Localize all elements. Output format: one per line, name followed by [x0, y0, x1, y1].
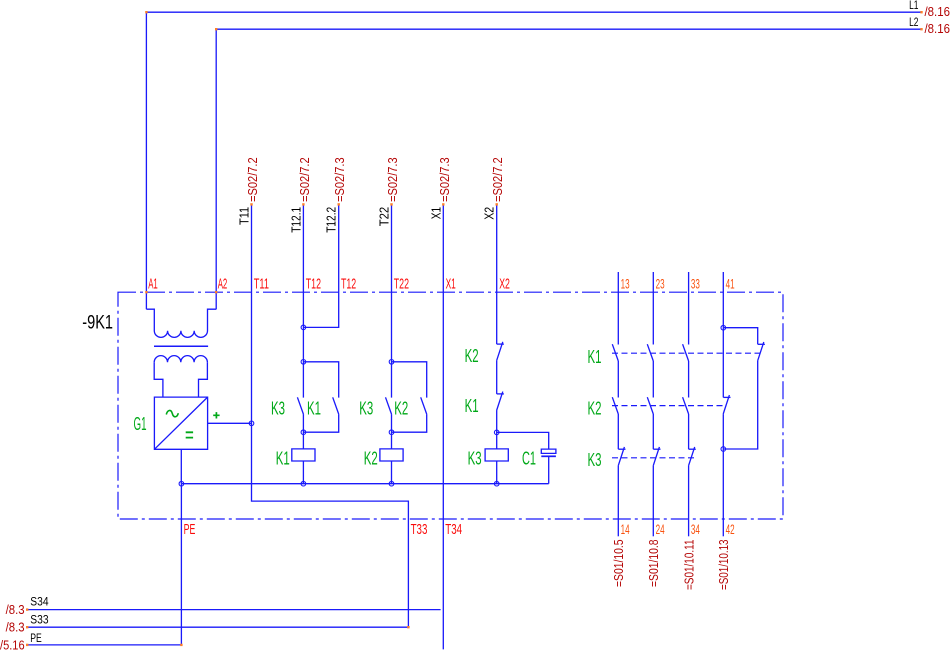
- wire col 13 seg3: [617, 414, 619, 449]
- wire T11: [27, 204, 408, 627]
- contact K3 row col 23 nc: [653, 448, 660, 450]
- wire coil K1 to rail: [302, 461, 304, 484]
- wire col 23 lower: [652, 466, 654, 537]
- svg-text:L2: L2: [909, 15, 919, 29]
- wire G1 plus output: [208, 422, 252, 424]
- node PE corner: [180, 644, 182, 646]
- wire L1: [146, 12, 921, 309]
- svg-text:/8.3: /8.3: [6, 602, 25, 617]
- svg-text:=S01/10.5: =S01/10.5: [611, 540, 626, 588]
- wire parallel branch K1: [303, 362, 338, 398]
- svg-text:T33: T33: [411, 521, 428, 538]
- coil K1: [292, 449, 315, 461]
- contact K1 nc: [497, 393, 504, 395]
- svg-text:33: 33: [691, 277, 700, 292]
- transformer core: [154, 345, 208, 347]
- junction K3 rail: [494, 481, 499, 486]
- contact K3 row col 13 nc: [618, 448, 625, 450]
- svg-text:K1: K1: [588, 346, 602, 367]
- wire contact column 33 upper: [688, 272, 690, 345]
- svg-text:T11: T11: [254, 276, 269, 293]
- junction G1 minus rail: [179, 481, 184, 486]
- junction T12 merge: [301, 325, 306, 330]
- node S33 corner: [407, 626, 409, 628]
- wire col 33 lower: [688, 466, 690, 537]
- svg-text:=S02/7.3: =S02/7.3: [385, 157, 400, 202]
- svg-text:/8.3: /8.3: [6, 620, 25, 635]
- contact K1 row col 23: [647, 344, 653, 361]
- node T12.1 top: [302, 203, 304, 205]
- wire C1 branch top: [497, 432, 549, 449]
- junction parallel bottom a: [301, 430, 306, 435]
- wire contact to coil K2: [391, 414, 393, 449]
- node S33 start: [26, 626, 28, 628]
- wire parallel bottom b: [392, 414, 427, 432]
- wire col 13 seg2: [617, 361, 619, 398]
- wire T12.1: [302, 204, 304, 397]
- linkage K2 row: [612, 405, 727, 407]
- svg-text:K1: K1: [307, 398, 321, 419]
- junction parallel top a: [301, 360, 306, 365]
- svg-text:=S02/7.3: =S02/7.3: [437, 157, 452, 202]
- node X1 top: [442, 203, 444, 205]
- svg-text:K2: K2: [394, 398, 408, 419]
- svg-text:S33: S33: [30, 612, 49, 626]
- svg-text:T22: T22: [377, 207, 392, 227]
- wire 41 main mid: [722, 328, 724, 398]
- contact K3 row col 33 nc: [689, 448, 696, 450]
- svg-text:=S01/10.11: =S01/10.11: [681, 540, 696, 591]
- node A1 border: [145, 291, 147, 293]
- svg-text:K3: K3: [359, 398, 373, 419]
- wire C1 branch bottom: [548, 456, 550, 483]
- wire X2: [496, 204, 498, 344]
- rectifier G1 DC symbol: [186, 432, 193, 437]
- svg-text:X1: X1: [428, 207, 443, 219]
- junction K1 rail: [301, 481, 306, 486]
- svg-text:24: 24: [656, 522, 665, 537]
- svg-text:K1: K1: [465, 395, 479, 416]
- node L2 corner: [215, 28, 217, 30]
- wire L2: [216, 29, 921, 309]
- svg-text:K3: K3: [588, 449, 602, 470]
- node T11 top: [250, 203, 252, 205]
- wire col 23 seg2: [652, 361, 654, 398]
- contact K2 row col 23: [647, 397, 653, 414]
- svg-text:X1: X1: [446, 276, 456, 293]
- capacitor C1 bottom plate: [541, 455, 556, 457]
- junction K3 C1 top: [494, 430, 499, 435]
- svg-text:L1: L1: [909, 0, 919, 12]
- contact K2 nc: [497, 343, 504, 345]
- contact K2 row col 13: [612, 397, 618, 414]
- svg-text:13: 13: [621, 277, 630, 292]
- wire col 23 seg3: [652, 414, 654, 449]
- svg-text:=S02/7.2: =S02/7.2: [245, 157, 260, 202]
- transformer secondary leads: [154, 362, 207, 397]
- wire parallel bottom a: [303, 414, 338, 432]
- transformer secondary winding: [154, 356, 207, 363]
- node L1 end: [920, 11, 922, 13]
- contact K3 second: [386, 397, 392, 414]
- rectifier G1 AC symbol: [166, 410, 178, 416]
- wire contact column 41 upper: [722, 272, 724, 328]
- wire coil K2 to rail: [391, 461, 393, 484]
- wire T22: [391, 204, 393, 397]
- svg-text:-9K1: -9K1: [82, 311, 113, 333]
- svg-text:T12.2: T12.2: [324, 207, 339, 233]
- contact K2 row col 33: [683, 397, 689, 414]
- wire contact column 23 upper: [652, 272, 654, 345]
- wire T12.2: [303, 204, 338, 327]
- svg-text:A2: A2: [218, 276, 228, 293]
- contact K1 row 41 nc: [758, 343, 765, 345]
- node T12.2 top: [338, 203, 340, 205]
- wire col 33 seg2: [688, 361, 690, 398]
- plus sign output: [213, 412, 219, 418]
- svg-text:G1: G1: [134, 414, 147, 434]
- node L2 end: [920, 28, 922, 30]
- node T22 top: [390, 203, 392, 205]
- contact K1 row col 33: [683, 344, 689, 361]
- contact K2 parallel: [421, 397, 427, 414]
- wire X1 T34: [442, 204, 444, 649]
- svg-text:K2: K2: [364, 448, 378, 469]
- contact K1 parallel: [333, 397, 339, 414]
- node S34 start: [26, 608, 28, 610]
- junction K2 rail: [389, 481, 394, 486]
- svg-text:X2: X2: [482, 207, 497, 220]
- svg-text:T34: T34: [445, 521, 462, 538]
- capacitor C1 top plate: [541, 449, 556, 453]
- wire 41 branch down: [723, 361, 757, 449]
- wire col 13 lower: [617, 466, 619, 537]
- node L1 corner: [145, 11, 147, 13]
- svg-text:34: 34: [691, 522, 700, 537]
- svg-text:PE: PE: [30, 631, 42, 645]
- svg-text:T12: T12: [341, 276, 356, 293]
- junction 41 top: [721, 325, 726, 330]
- rectifier G1 box: [154, 397, 207, 449]
- wire contact to coil K1: [302, 414, 304, 449]
- wire coil K3 to rail: [496, 461, 498, 484]
- wire 41 main lower: [722, 414, 724, 536]
- svg-text:S34: S34: [30, 595, 49, 609]
- svg-text:K3: K3: [271, 398, 285, 419]
- svg-text:X2: X2: [499, 276, 510, 293]
- svg-text:T11: T11: [237, 207, 252, 225]
- node A2 border: [215, 291, 217, 293]
- wire minus rail: [181, 483, 548, 485]
- transformer primary winding: [146, 309, 216, 337]
- svg-text:23: 23: [656, 277, 665, 292]
- svg-text:K1: K1: [276, 448, 290, 469]
- svg-text:K2: K2: [465, 345, 479, 366]
- wire G1 minus to rail: [180, 449, 182, 483]
- svg-text:K3: K3: [468, 448, 482, 469]
- junction parallel top b: [389, 360, 394, 365]
- svg-text:T22: T22: [394, 276, 409, 293]
- svg-text:T12: T12: [306, 276, 321, 293]
- svg-text:=S01/10.8: =S01/10.8: [646, 540, 661, 588]
- coil K3: [485, 449, 508, 461]
- svg-text:PE: PE: [184, 521, 196, 538]
- linkage K3 row: [612, 457, 697, 459]
- wire col 33 seg3: [688, 414, 690, 449]
- junction G1 plus T11: [249, 421, 254, 426]
- junction parallel bottom b: [389, 430, 394, 435]
- svg-text:41: 41: [726, 277, 735, 292]
- contact K2 row 41 nc: [723, 396, 730, 398]
- svg-text:A1: A1: [148, 276, 158, 293]
- wire X2 to junction: [496, 411, 498, 449]
- svg-text:C1: C1: [522, 448, 536, 469]
- contact K1 row col 13: [612, 344, 618, 361]
- svg-text:14: 14: [621, 522, 630, 537]
- svg-text:K2: K2: [588, 398, 602, 419]
- node X2 top: [496, 203, 498, 205]
- svg-text:/5.16: /5.16: [0, 637, 25, 652]
- wire 41 branch right: [723, 328, 757, 345]
- linkage K1 row: [612, 352, 763, 354]
- coil K2: [380, 449, 403, 461]
- wire S34: [27, 609, 440, 611]
- wire PE: [27, 484, 181, 645]
- svg-text:=S02/7.3: =S02/7.3: [332, 157, 347, 202]
- junction 42 bottom: [721, 447, 726, 452]
- svg-text:T12.1: T12.1: [288, 207, 303, 233]
- node PE start: [26, 644, 28, 646]
- wire contact column 13 upper: [617, 272, 619, 345]
- svg-text:=S02/7.2: =S02/7.2: [297, 157, 312, 202]
- wire parallel branch K2: [392, 362, 427, 398]
- svg-text:/8.16: /8.16: [925, 21, 950, 36]
- enclosure -9K1 border: [118, 292, 783, 519]
- contact K3 first: [297, 397, 303, 414]
- svg-text:42: 42: [726, 522, 735, 537]
- wire X2 mid: [496, 361, 498, 394]
- svg-text:=S02/7.2: =S02/7.2: [490, 157, 505, 202]
- svg-text:=S01/10.13: =S01/10.13: [716, 540, 731, 591]
- svg-text:/8.16: /8.16: [925, 4, 950, 19]
